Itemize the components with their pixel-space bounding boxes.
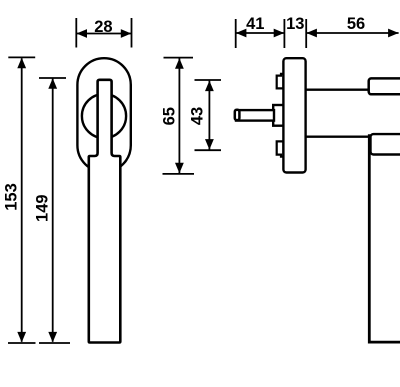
svg-text:153: 153	[3, 183, 21, 211]
svg-text:13: 13	[286, 15, 304, 33]
svg-text:43: 43	[189, 107, 207, 125]
svg-text:149: 149	[34, 194, 52, 222]
svg-text:56: 56	[347, 15, 365, 33]
svg-text:41: 41	[246, 15, 264, 33]
svg-text:28: 28	[94, 18, 112, 36]
svg-text:65: 65	[160, 107, 178, 125]
